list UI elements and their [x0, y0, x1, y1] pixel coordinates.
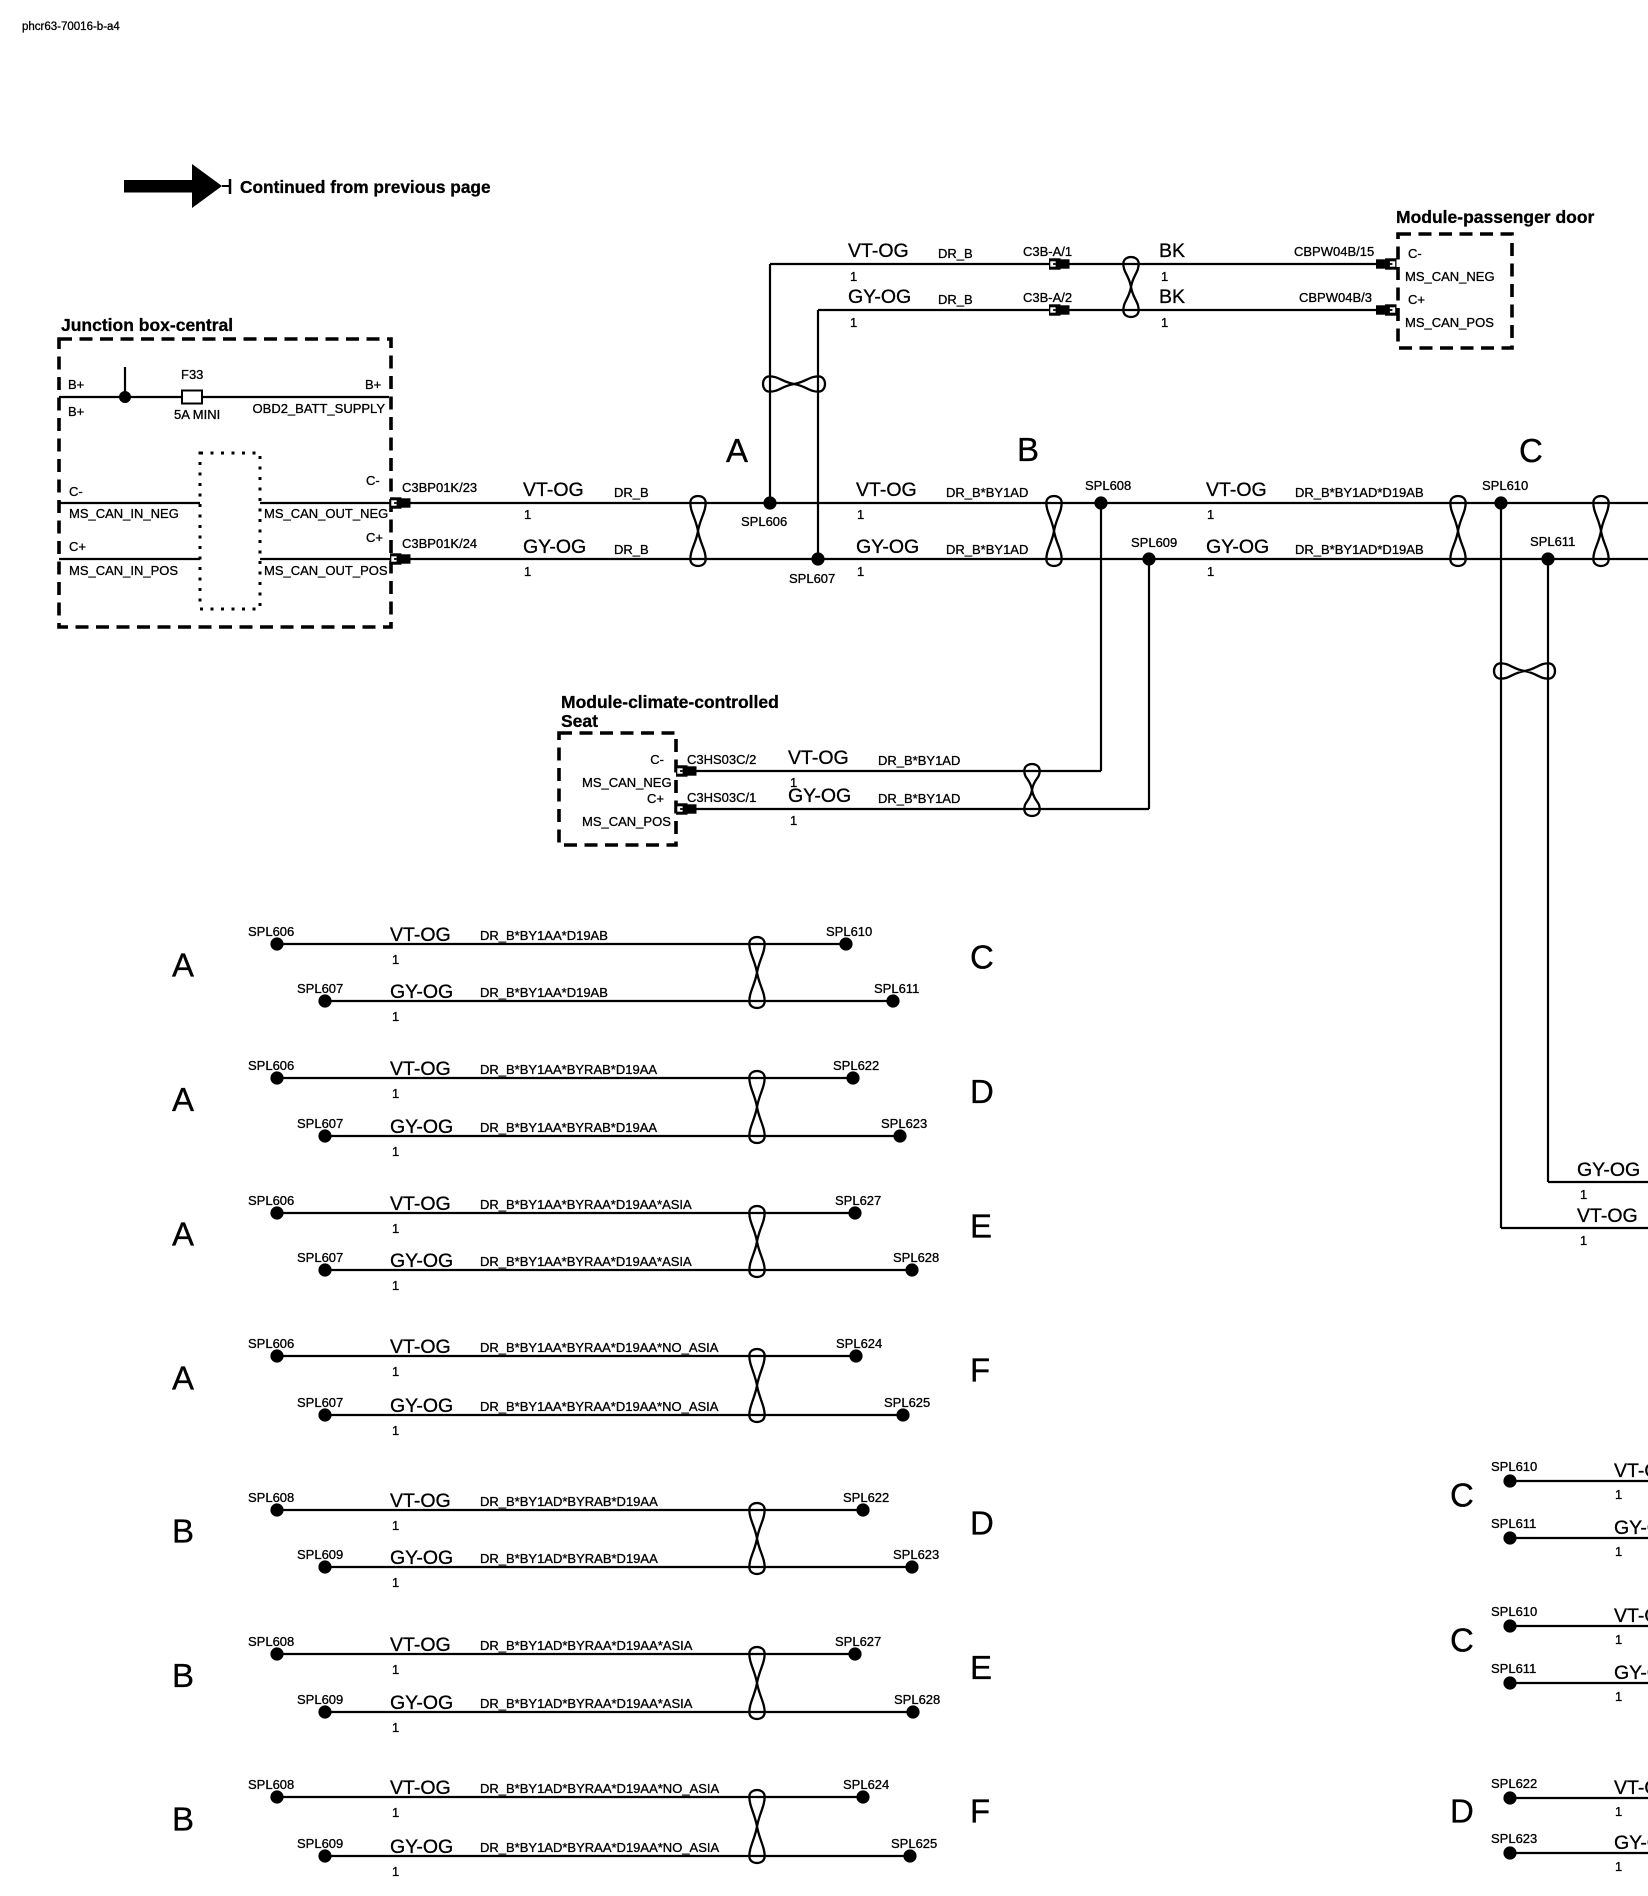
splice SPL609	[318, 1705, 331, 1718]
svg-text:SPL610: SPL610	[826, 924, 872, 939]
svg-text:C: C	[970, 939, 994, 976]
svg-text:DR_B*BY1AA*BYRAA*D19AA*ASIA: DR_B*BY1AA*BYRAA*D19AA*ASIA	[480, 1197, 692, 1212]
splice SPL622	[846, 1071, 859, 1084]
svg-text:1: 1	[392, 952, 399, 967]
svg-text:SPL607: SPL607	[297, 1116, 343, 1131]
svg-text:1: 1	[1615, 1689, 1622, 1704]
svg-text:DR_B*BY1AA*D19AB: DR_B*BY1AA*D19AB	[480, 928, 608, 943]
svg-text:VT-OG: VT-OG	[1614, 1777, 1648, 1799]
svg-text:C-: C-	[1408, 246, 1422, 261]
twisted pair symbol	[749, 1349, 764, 1422]
svg-text:VT-OG: VT-OG	[1206, 479, 1267, 501]
svg-text:E: E	[970, 1208, 992, 1245]
wire B+ OBD2_BATT_SUPPLY	[59, 396, 389, 398]
wire SPL607 to SPL623	[325, 1135, 900, 1137]
svg-text:Module-climate-controlled: Module-climate-controlled	[561, 692, 779, 712]
splice SPL608	[270, 1503, 283, 1516]
svg-text:1: 1	[392, 1221, 399, 1236]
connector C3HS03C/2	[676, 765, 697, 776]
svg-text:VT-OG: VT-OG	[1577, 1205, 1638, 1227]
svg-text:GY-OG: GY-OG	[390, 1547, 453, 1569]
svg-text:MS_CAN_IN_POS: MS_CAN_IN_POS	[69, 563, 178, 578]
svg-text:SPL609: SPL609	[297, 1836, 343, 1851]
svg-text:MS_CAN_NEG: MS_CAN_NEG	[1405, 269, 1495, 284]
svg-text:SPL609: SPL609	[297, 1692, 343, 1707]
svg-text:GY-OG: GY-OG	[390, 1692, 453, 1714]
wire SPL606 to SPL627	[277, 1212, 855, 1214]
svg-text:SPL623: SPL623	[1491, 1831, 1537, 1846]
svg-text:SPL623: SPL623	[893, 1547, 939, 1562]
splice SPL607	[318, 1129, 331, 1142]
wire MS_CAN_OUT_NEG	[260, 502, 390, 504]
splice SPL624	[849, 1349, 862, 1362]
svg-text:F: F	[970, 1793, 990, 1830]
wire VT-OG to seat module	[696, 770, 1101, 772]
svg-text:SPL609: SPL609	[297, 1547, 343, 1562]
twisted pair symbol (section 2)	[1046, 496, 1061, 566]
svg-text:1: 1	[1615, 1804, 1622, 1819]
svg-text:C3HS03C/1: C3HS03C/1	[687, 790, 756, 805]
twisted pair symbol	[749, 1790, 764, 1863]
twisted pair symbol (section 4)	[1593, 496, 1608, 566]
svg-text:C+: C+	[69, 539, 86, 554]
splice SPL606	[270, 1349, 283, 1362]
svg-text:phcr63-70016-b-a4: phcr63-70016-b-a4	[22, 21, 120, 33]
svg-text:VT-OG: VT-OG	[390, 1777, 451, 1799]
twisted pair symbol (section 1)	[690, 496, 705, 566]
svg-text:1: 1	[392, 1364, 399, 1379]
splice SPL606	[270, 937, 283, 950]
svg-text:VT-OG: VT-OG	[788, 747, 849, 769]
splice SPL607	[318, 1263, 331, 1276]
svg-text:VT-OG: VT-OG	[390, 924, 451, 946]
splice SPL623 (right column)	[1503, 1846, 1516, 1859]
wire SPL607 to SPL611	[325, 1000, 893, 1002]
svg-text:OBD2_BATT_SUPPLY: OBD2_BATT_SUPPLY	[253, 401, 386, 416]
fuse F33 5A MINI	[182, 391, 202, 404]
module-climate-controlled seat outline	[559, 733, 676, 845]
svg-text:GY-OG: GY-OG	[523, 536, 586, 558]
splice SPL627	[848, 1206, 861, 1219]
wire GY-OG main bus	[410, 558, 1648, 560]
svg-text:SPL625: SPL625	[891, 1836, 937, 1851]
svg-text:VT-OG: VT-OG	[523, 479, 584, 501]
twisted pair symbol	[749, 1071, 764, 1143]
svg-text:1: 1	[857, 564, 864, 579]
junction dot on B+ wire	[119, 391, 131, 403]
wire MS_CAN_IN_POS	[59, 558, 200, 560]
svg-text:5A MINI: 5A MINI	[174, 407, 220, 422]
svg-text:SPL624: SPL624	[836, 1336, 882, 1351]
svg-text:GY-OG: GY-OG	[788, 785, 851, 807]
svg-text:DR_B*BY1AA*BYRAA*D19AA*ASIA: DR_B*BY1AA*BYRAA*D19AA*ASIA	[480, 1254, 692, 1269]
svg-text:1: 1	[392, 1805, 399, 1820]
svg-text:GY-OG: GY-OG	[390, 1395, 453, 1417]
svg-text:B: B	[1017, 431, 1039, 468]
splice SPL623	[905, 1560, 918, 1573]
twisted pair symbol	[749, 937, 764, 1008]
svg-text:C-: C-	[366, 473, 380, 488]
svg-text:C+: C+	[1408, 292, 1425, 307]
twisted pair symbol (seat pair)	[1024, 764, 1039, 816]
svg-text:B+: B+	[365, 377, 381, 392]
wire VT-OG main bus	[410, 502, 1648, 504]
svg-text:DR_B*BY1AA*BYRAA*D19AA*NO_ASIA: DR_B*BY1AA*BYRAA*D19AA*NO_ASIA	[480, 1340, 719, 1355]
wire BK to passenger door	[1069, 263, 1376, 265]
svg-text:VT-OG: VT-OG	[1614, 1605, 1648, 1627]
svg-text:C-: C-	[69, 484, 83, 499]
svg-text:SPL608: SPL608	[248, 1490, 294, 1505]
splice SPL627	[848, 1647, 861, 1660]
splice SPL608	[1094, 496, 1107, 509]
svg-text:1: 1	[524, 564, 531, 579]
svg-text:SPL606: SPL606	[248, 1058, 294, 1073]
wire SPL608 to SPL622	[277, 1509, 863, 1511]
wire from SPL623 (clipped)	[1510, 1852, 1648, 1854]
splice SPL624	[856, 1790, 869, 1803]
svg-text:A: A	[726, 432, 748, 469]
svg-text:SPL610: SPL610	[1482, 478, 1528, 493]
splice SPL628	[905, 1263, 918, 1276]
svg-text:SPL611: SPL611	[874, 981, 919, 996]
svg-text:C: C	[1450, 1477, 1474, 1514]
svg-text:1: 1	[1580, 1187, 1587, 1202]
svg-text:1: 1	[1580, 1233, 1587, 1248]
splice SPL607	[318, 994, 331, 1007]
svg-text:1: 1	[392, 1086, 399, 1101]
wire from SPL611 (clipped)	[1510, 1682, 1648, 1684]
svg-text:SPL608: SPL608	[248, 1634, 294, 1649]
wire from SPL622 (clipped)	[1510, 1797, 1648, 1799]
svg-text:1: 1	[392, 1575, 399, 1590]
svg-text:B: B	[172, 1513, 194, 1550]
svg-text:DR_B*BY1AD: DR_B*BY1AD	[878, 753, 960, 768]
svg-text:DR_B*BY1AD*BYRAA*D19AA*ASIA: DR_B*BY1AD*BYRAA*D19AA*ASIA	[480, 1638, 693, 1653]
splice SPL607	[811, 552, 824, 565]
wire VT-OG to next page	[1501, 1227, 1648, 1229]
svg-text:SPL610: SPL610	[1491, 1604, 1537, 1619]
svg-text:C: C	[1450, 1622, 1474, 1659]
splice SPL623	[893, 1129, 906, 1142]
svg-text:Junction box-central: Junction box-central	[61, 315, 233, 335]
svg-text:SPL627: SPL627	[835, 1193, 881, 1208]
svg-text:VT-OG: VT-OG	[390, 1058, 451, 1080]
svg-text:1: 1	[392, 1278, 399, 1293]
svg-text:1: 1	[1615, 1487, 1622, 1502]
svg-text:MS_CAN_POS: MS_CAN_POS	[582, 814, 671, 829]
svg-text:SPL622: SPL622	[843, 1490, 889, 1505]
svg-text:GY-OG: GY-OG	[1614, 1662, 1648, 1684]
svg-text:SPL607: SPL607	[297, 1395, 343, 1410]
svg-text:Seat: Seat	[561, 711, 598, 731]
splice SPL625	[903, 1849, 916, 1862]
module-passenger door outline	[1398, 234, 1512, 348]
wire SPL609 to SPL625	[325, 1855, 910, 1857]
svg-text:MS_CAN_OUT_POS: MS_CAN_OUT_POS	[264, 563, 388, 578]
svg-text:DR_B*BY1AD*BYRAA*D19AA*NO_ASIA: DR_B*BY1AD*BYRAA*D19AA*NO_ASIA	[480, 1781, 719, 1796]
connector C3HS03C/1	[676, 803, 697, 814]
wire SPL607 to passenger door branch	[817, 310, 819, 559]
svg-text:SPL606: SPL606	[248, 924, 294, 939]
svg-text:C-: C-	[650, 752, 664, 767]
svg-text:B+: B+	[68, 404, 84, 419]
svg-text:DR_B*BY1AA*BYRAB*D19AA: DR_B*BY1AA*BYRAB*D19AA	[480, 1062, 657, 1077]
continued-from-previous-page arrow	[124, 164, 230, 208]
wire SPL609 to SPL623	[325, 1566, 912, 1568]
twisted pair symbol on SPL610/SPL611 drop	[1494, 663, 1555, 678]
svg-text:1: 1	[392, 1009, 399, 1024]
splice SPL608	[270, 1790, 283, 1803]
wire VT branch to passenger door	[770, 263, 1049, 265]
svg-text:1: 1	[392, 1864, 399, 1879]
wire MS_CAN_IN_NEG	[59, 502, 200, 504]
svg-text:SPL608: SPL608	[248, 1777, 294, 1792]
wire SPL611 drop	[1547, 559, 1549, 1182]
svg-text:VT-OG: VT-OG	[390, 1193, 451, 1215]
wire SPL606 to passenger door branch	[769, 264, 771, 503]
svg-text:GY-OG: GY-OG	[390, 1250, 453, 1272]
wire SPL609 to SPL628	[325, 1711, 913, 1713]
svg-text:GY-OG: GY-OG	[390, 1116, 453, 1138]
wire from SPL610 (clipped)	[1510, 1480, 1648, 1482]
junction box-central outline	[59, 339, 391, 627]
svg-text:SPL628: SPL628	[893, 1250, 939, 1265]
splice SPL610 (right column)	[1503, 1474, 1516, 1487]
svg-text:SPL624: SPL624	[843, 1777, 889, 1792]
svg-text:C: C	[1519, 432, 1543, 469]
svg-text:DR_B*BY1AD*D19AB: DR_B*BY1AD*D19AB	[1295, 485, 1424, 500]
svg-text:VT-OG: VT-OG	[856, 479, 917, 501]
svg-text:CBPW04B/3: CBPW04B/3	[1299, 290, 1372, 305]
svg-text:1: 1	[392, 1423, 399, 1438]
svg-text:A: A	[172, 1081, 194, 1118]
splice SPL606	[763, 496, 776, 509]
wire GY-OG to seat module	[696, 808, 1149, 810]
svg-text:1: 1	[850, 269, 857, 284]
svg-text:1: 1	[1615, 1859, 1622, 1874]
twisted pair symbol (section 3)	[1450, 496, 1465, 566]
wire SPL608 to SPL627	[277, 1653, 855, 1655]
twisted pair symbol	[749, 1206, 764, 1277]
svg-text:MS_CAN_OUT_NEG: MS_CAN_OUT_NEG	[264, 506, 388, 521]
svg-text:C+: C+	[366, 530, 383, 545]
svg-text:1: 1	[1207, 564, 1214, 579]
twisted pair symbol on BK pair	[1123, 257, 1138, 317]
svg-text:1: 1	[392, 1720, 399, 1735]
svg-text:Continued from previous page: Continued from previous page	[240, 177, 491, 197]
svg-text:VT-OG: VT-OG	[390, 1634, 451, 1656]
svg-text:DR_B: DR_B	[614, 485, 649, 500]
wire SPL606 to SPL624	[277, 1355, 856, 1357]
svg-text:DR_B: DR_B	[614, 542, 649, 557]
splice SPL610	[1494, 496, 1507, 509]
svg-text:SPL622: SPL622	[1491, 1776, 1537, 1791]
svg-text:DR_B*BY1AD: DR_B*BY1AD	[878, 791, 960, 806]
wire from SPL610 (clipped)	[1510, 1625, 1648, 1627]
svg-text:SPL610: SPL610	[1491, 1459, 1537, 1474]
svg-text:B+: B+	[68, 377, 84, 392]
wire SPL606 to SPL622	[277, 1077, 853, 1079]
splice SPL611 (right column)	[1503, 1531, 1516, 1544]
svg-text:DR_B: DR_B	[938, 292, 973, 307]
splice SPL622	[856, 1503, 869, 1516]
svg-text:D: D	[1450, 1793, 1474, 1830]
svg-text:E: E	[970, 1649, 992, 1686]
svg-text:VT-OG: VT-OG	[848, 240, 909, 262]
svg-text:DR_B*BY1AD*D19AB: DR_B*BY1AD*D19AB	[1295, 542, 1424, 557]
splice SPL609	[318, 1849, 331, 1862]
svg-text:A: A	[172, 1360, 194, 1397]
svg-text:C3HS03C/2: C3HS03C/2	[687, 752, 756, 767]
wire BK to passenger door (pos)	[1069, 309, 1376, 311]
svg-text:SPL607: SPL607	[789, 571, 835, 586]
svg-text:MS_CAN_NEG: MS_CAN_NEG	[582, 775, 672, 790]
svg-text:SPL606: SPL606	[741, 514, 787, 529]
svg-text:F33: F33	[181, 367, 203, 382]
splice SPL608	[270, 1647, 283, 1660]
svg-text:1: 1	[1615, 1632, 1622, 1647]
wire GY-OG to next page	[1548, 1181, 1648, 1183]
svg-text:DR_B: DR_B	[938, 246, 973, 261]
svg-text:DR_B*BY1AD*BYRAA*D19AA*ASIA: DR_B*BY1AD*BYRAA*D19AA*ASIA	[480, 1696, 693, 1711]
wire SPL610 drop	[1500, 503, 1502, 1228]
svg-text:DR_B*BY1AA*BYRAA*D19AA*NO_ASIA: DR_B*BY1AA*BYRAA*D19AA*NO_ASIA	[480, 1399, 719, 1414]
svg-text:C3BP01K/23: C3BP01K/23	[402, 480, 477, 495]
svg-text:SPL607: SPL607	[297, 1250, 343, 1265]
svg-text:C3B-A/1: C3B-A/1	[1023, 244, 1072, 259]
splice SPL628	[906, 1705, 919, 1718]
svg-text:D: D	[970, 1073, 994, 1110]
svg-text:DR_B*BY1AA*BYRAB*D19AA: DR_B*BY1AA*BYRAB*D19AA	[480, 1120, 657, 1135]
svg-text:BK: BK	[1159, 240, 1185, 262]
svg-text:1: 1	[392, 1662, 399, 1677]
wire GY branch to passenger door	[818, 309, 1049, 311]
svg-text:GY-OG: GY-OG	[848, 286, 911, 308]
svg-text:DR_B*BY1AA*D19AB: DR_B*BY1AA*D19AB	[480, 985, 608, 1000]
wire SPL607 to SPL628	[325, 1269, 912, 1271]
svg-text:SPL607: SPL607	[297, 981, 343, 996]
svg-text:SPL628: SPL628	[894, 1692, 940, 1707]
svg-text:SPL606: SPL606	[248, 1193, 294, 1208]
svg-text:SPL611: SPL611	[1491, 1661, 1536, 1676]
splice SPL607	[318, 1408, 331, 1421]
splice SPL611	[1541, 552, 1554, 565]
svg-text:SPL622: SPL622	[833, 1058, 879, 1073]
splice SPL609	[318, 1560, 331, 1573]
svg-text:SPL609: SPL609	[1131, 535, 1177, 550]
wire SPL608 to SPL624	[277, 1796, 863, 1798]
splice SPL610	[839, 937, 852, 950]
svg-text:A: A	[172, 947, 194, 984]
connector C3BP01K/24	[390, 553, 411, 564]
splice SPL611	[886, 994, 899, 1007]
wire SPL608 to seat module	[1100, 503, 1102, 771]
svg-text:BK: BK	[1159, 286, 1185, 308]
svg-text:D: D	[970, 1505, 994, 1542]
svg-text:VT-OG: VT-OG	[390, 1490, 451, 1512]
svg-text:SPL606: SPL606	[248, 1336, 294, 1351]
splice SPL625	[896, 1408, 909, 1421]
svg-text:1: 1	[392, 1144, 399, 1159]
wire MS_CAN_OUT_POS	[260, 558, 390, 560]
svg-text:DR_B*BY1AD: DR_B*BY1AD	[946, 542, 1028, 557]
svg-text:Module-passenger door: Module-passenger door	[1396, 207, 1595, 227]
splice SPL610 (right column)	[1503, 1619, 1516, 1632]
svg-text:B: B	[172, 1801, 194, 1838]
svg-text:SPL627: SPL627	[835, 1634, 881, 1649]
junction box inner dotted block	[200, 453, 260, 609]
svg-text:A: A	[172, 1216, 194, 1253]
svg-text:VT-OG: VT-OG	[1614, 1460, 1648, 1482]
connector CBPW04B/15	[1376, 258, 1397, 269]
svg-text:GY-OG: GY-OG	[390, 1836, 453, 1858]
svg-text:SPL611: SPL611	[1530, 534, 1575, 549]
svg-text:DR_B*BY1AD*BYRAA*D19AA*NO_ASIA: DR_B*BY1AD*BYRAA*D19AA*NO_ASIA	[480, 1840, 719, 1855]
svg-text:C+: C+	[647, 791, 664, 806]
svg-text:1: 1	[1615, 1544, 1622, 1559]
svg-text:DR_B*BY1AD: DR_B*BY1AD	[946, 485, 1028, 500]
twisted pair symbol	[749, 1503, 764, 1574]
twisted pair symbol	[749, 1647, 764, 1719]
svg-text:DR_B*BY1AD*BYRAB*D19AA: DR_B*BY1AD*BYRAB*D19AA	[480, 1551, 658, 1566]
splice SPL609	[1142, 552, 1155, 565]
wire from SPL611 (clipped)	[1510, 1537, 1648, 1539]
svg-text:1: 1	[790, 813, 797, 828]
svg-text:MS_CAN_POS: MS_CAN_POS	[1405, 315, 1494, 330]
svg-text:C3B-A/2: C3B-A/2	[1023, 290, 1072, 305]
svg-text:MS_CAN_IN_NEG: MS_CAN_IN_NEG	[69, 506, 179, 521]
connector CBPW04B/3	[1376, 304, 1397, 315]
svg-text:1: 1	[392, 1518, 399, 1533]
svg-text:SPL608: SPL608	[1085, 478, 1131, 493]
wire SPL607 to SPL625	[325, 1414, 903, 1416]
svg-text:GY-OG: GY-OG	[1577, 1159, 1640, 1181]
svg-text:GY-OG: GY-OG	[1614, 1832, 1648, 1854]
svg-text:1: 1	[1207, 507, 1214, 522]
wire stub at B+ junction	[124, 367, 126, 397]
svg-text:C3BP01K/24: C3BP01K/24	[402, 536, 477, 551]
svg-text:GY-OG: GY-OG	[856, 536, 919, 558]
twisted pair symbol on branch verticals	[763, 376, 825, 391]
connector C3BP01K/23	[390, 497, 411, 508]
svg-text:1: 1	[1161, 269, 1168, 284]
svg-text:1: 1	[1161, 315, 1168, 330]
svg-text:SPL625: SPL625	[884, 1395, 930, 1410]
svg-text:1: 1	[524, 507, 531, 522]
svg-text:SPL611: SPL611	[1491, 1516, 1536, 1531]
svg-text:GY-OG: GY-OG	[1206, 536, 1269, 558]
splice SPL606	[270, 1206, 283, 1219]
svg-text:VT-OG: VT-OG	[390, 1336, 451, 1358]
connector C3B-A/1	[1049, 258, 1070, 269]
svg-text:1: 1	[850, 315, 857, 330]
svg-text:GY-OG: GY-OG	[390, 981, 453, 1003]
wire SPL606 to SPL610	[277, 943, 846, 945]
splice SPL606	[270, 1071, 283, 1084]
wire SPL609 to seat module	[1148, 559, 1150, 809]
svg-text:GY-OG: GY-OG	[1614, 1517, 1648, 1539]
splice SPL622 (right column)	[1503, 1791, 1516, 1804]
svg-text:SPL623: SPL623	[881, 1116, 927, 1131]
connector C3B-A/2	[1049, 304, 1070, 315]
svg-text:1: 1	[857, 507, 864, 522]
splice SPL611 (right column)	[1503, 1676, 1516, 1689]
svg-text:DR_B*BY1AD*BYRAB*D19AA: DR_B*BY1AD*BYRAB*D19AA	[480, 1494, 658, 1509]
svg-text:F: F	[970, 1352, 990, 1389]
svg-text:CBPW04B/15: CBPW04B/15	[1294, 244, 1374, 259]
svg-text:B: B	[172, 1657, 194, 1694]
